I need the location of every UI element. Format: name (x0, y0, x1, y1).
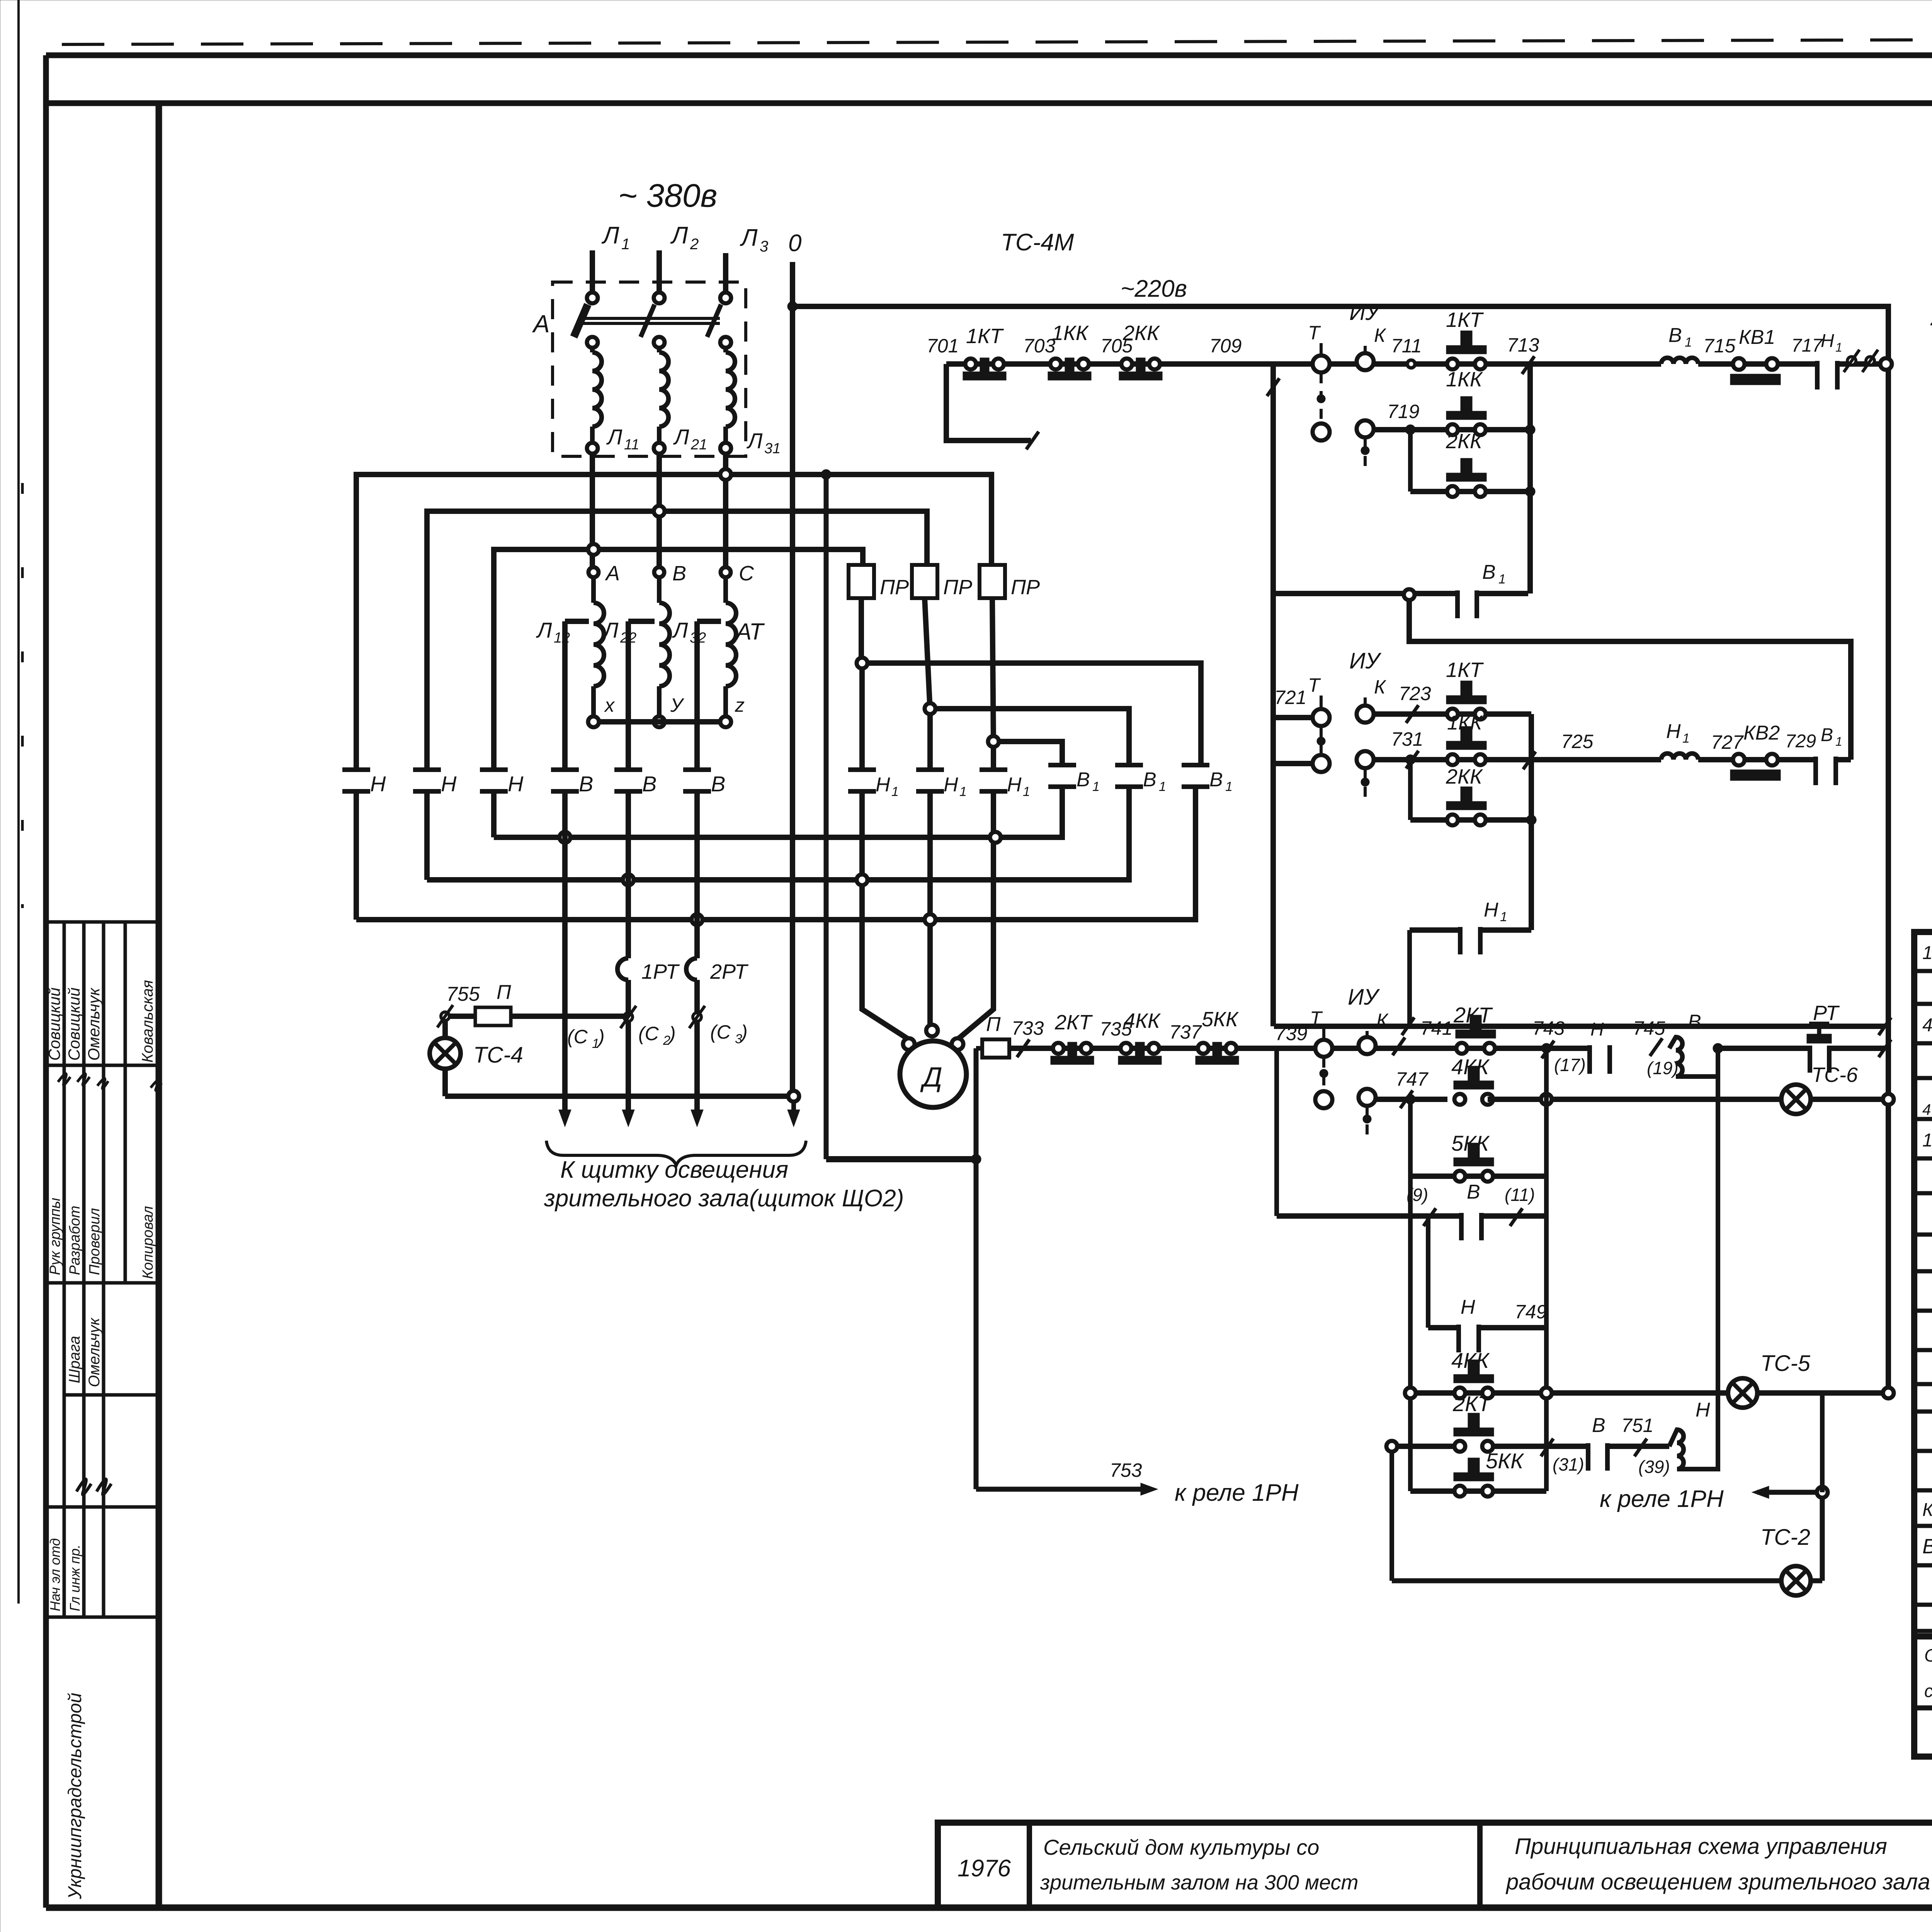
svg-text:ТС-2: ТС-2 (1760, 1525, 1810, 1550)
junction dot branch719 (1525, 425, 1535, 435)
automat pole 3 coil (726, 348, 735, 443)
pushbutton 1KK NO row1 (1446, 368, 1486, 435)
svg-text:(31): (31) (1553, 1454, 1584, 1475)
wire C2 column upper (626, 791, 631, 958)
text zritelnogo zala (544, 1185, 904, 1212)
automat pole 1 top terminal (587, 293, 598, 303)
svg-text:Ковальская: Ковальская (139, 980, 156, 1063)
junction circle H1 col1 y2277 (857, 874, 867, 885)
svg-text:1: 1 (959, 784, 967, 799)
pushbutton 1KT NO row1 (1446, 308, 1486, 369)
svg-text:(19): (19) (1647, 1058, 1679, 1078)
svg-text:1КТ: 1КТ (1446, 658, 1484, 682)
label C1 (567, 1026, 605, 1051)
table row 7 text (0, 0, 0, 0)
stamp signature squiggles 1 (58, 1074, 162, 1091)
winding L12 (594, 577, 604, 717)
label C3 (710, 1021, 748, 1046)
wire H1col3 mid (991, 747, 996, 770)
svg-text:А: А (532, 310, 550, 338)
sheet outer scan edge left (17, 0, 20, 1604)
label 719 (1387, 401, 1419, 422)
wire bottom collector (445, 1094, 789, 1099)
contact H1 feedback row2 (1460, 899, 1507, 954)
wire TC5 to bus (1757, 1390, 1883, 1396)
wire PR2 to H1col2 (925, 598, 930, 710)
svg-text:Принципиальная схема управл: Принципиальная схема управления (1515, 1834, 1887, 1859)
wire H col1 lower (354, 791, 359, 920)
junction circle row1 loop (1404, 589, 1415, 600)
svg-text:711: 711 (1391, 335, 1422, 357)
svg-text:1: 1 (1092, 779, 1100, 794)
table row 2 text (1922, 1012, 1932, 1036)
label 751 (1621, 1415, 1653, 1436)
title object line1 (1043, 1835, 1319, 1859)
stamp row line 3 (46, 1281, 159, 1285)
sheet top scan dashed edge (62, 38, 1932, 44)
wire TC2 line (1392, 1578, 1781, 1583)
svg-text:4КК-5КК: 4КК-5КК (1922, 1015, 1932, 1036)
limit switch KV1 (1730, 326, 1781, 385)
label automat A (532, 310, 550, 338)
contact B1 feedback row1 (1458, 561, 1506, 618)
wire 747 to lamp (1488, 1097, 1781, 1102)
junction circle TC6 bus (1883, 1094, 1894, 1105)
svg-text:1: 1 (1159, 779, 1166, 794)
svg-text:В: В (1143, 769, 1156, 791)
svg-text:2КТ: 2КТ (1453, 1003, 1493, 1027)
svg-text:749: 749 (1515, 1301, 1547, 1323)
table horizontal lines (1914, 971, 1932, 1631)
selector IU row1 (1308, 300, 1386, 372)
automat A dashed box (553, 282, 746, 456)
lamp TC-2 (1760, 1525, 1811, 1595)
contact H feedback 749 (1459, 1296, 1479, 1352)
svg-text:Обозн: Обозн (1924, 1645, 1932, 1665)
title block verticals (1029, 1823, 1932, 1908)
fuse PR2 body (912, 565, 972, 599)
svg-text:747: 747 (1396, 1068, 1429, 1090)
wire row3 main (1009, 1039, 1590, 1057)
winding L22 (659, 577, 670, 717)
label 717 (1791, 335, 1823, 356)
table row 15 text (1922, 1496, 1932, 1520)
svg-text:1: 1 (1835, 340, 1842, 354)
svg-text:(39): (39) (1638, 1457, 1670, 1477)
wire branch 5KK-2 (1410, 1488, 1546, 1494)
wire vertical 3602 (1389, 1452, 1394, 1581)
automat pole 1 coil (592, 348, 602, 443)
svg-text:701: 701 (927, 335, 959, 357)
wire wrap row y2277 (427, 787, 1129, 880)
junction circle O col bottom (788, 1091, 799, 1102)
title object line2 (1040, 1871, 1358, 1894)
pushbutton 2KT NO second (1452, 1391, 1494, 1452)
relay coil H lower (1669, 1399, 1718, 1469)
svg-text:2КТ: 2КТ (1054, 1011, 1093, 1034)
text k rele 1RN left (1175, 1480, 1299, 1506)
svg-text:1КТ: 1КТ (1446, 308, 1484, 332)
svg-text:4КК: 4КК (1124, 1009, 1161, 1032)
label L32 (672, 618, 706, 646)
wire H1col2 mid (927, 714, 933, 770)
svg-text:Л: Л (536, 618, 552, 642)
svg-text:В: В (711, 772, 725, 796)
svg-text:Л: Л (601, 222, 619, 249)
svg-text:2: 2 (690, 236, 699, 253)
wire row1 end (1839, 350, 1881, 372)
label 741 (1420, 1017, 1452, 1039)
label L12 (536, 618, 570, 646)
stamp text Kopiroval (140, 1206, 156, 1279)
title sheet name line2 (1505, 1869, 1930, 1895)
contact B feedback 31 (1588, 1414, 1607, 1471)
svg-text:Н: Н (1821, 331, 1834, 351)
wire TC2 right (1811, 1492, 1822, 1581)
arrow C2 down (622, 1096, 634, 1127)
wire row1 loop right vertical (1527, 364, 1533, 594)
svg-text:(С: (С (567, 1026, 588, 1048)
wire row1 branch 2KK (1405, 425, 1530, 492)
wire H1col3 to motor (957, 843, 993, 1039)
label L3 (740, 224, 768, 255)
wire row2 branch 723 (1374, 705, 1531, 723)
junction circle TC5 bus (1883, 1388, 1894, 1398)
label 743 with mark (1532, 1017, 1565, 1058)
svg-text:~ 380в: ~ 380в (618, 177, 717, 214)
contact H col2 (413, 770, 457, 796)
pushbutton 4KK row3 (1118, 1009, 1162, 1065)
fuse P row3 (976, 1013, 1009, 1058)
svg-text:зрительным залом на 300 мест: зрительным залом на 300 мест (1040, 1871, 1358, 1894)
svg-text:В: В (642, 772, 656, 796)
svg-text:Л: Л (670, 222, 688, 249)
svg-text:1: 1 (621, 236, 630, 253)
table line above perechen (1914, 1706, 1932, 1711)
junction circle B col2 y2277 (623, 874, 634, 885)
terminal circle 2KT2 left (1386, 1441, 1397, 1452)
label ~380V (618, 177, 717, 214)
wire B1col1 lower (1060, 787, 1065, 832)
table row 5 text (1922, 1128, 1932, 1151)
label 747 (1396, 1068, 1429, 1090)
wire branch H 749 (1428, 1325, 1546, 1330)
svg-text:к реле 1РН: к реле 1РН (1600, 1486, 1724, 1512)
svg-text:1КК-2КК: 1КК-2КК (1922, 943, 1932, 963)
svg-text:ИУ: ИУ (1348, 985, 1380, 1010)
label 713 with mark (1507, 334, 1539, 374)
bus 2 node circle at L21 (654, 506, 665, 517)
wire row2 right vertical (1529, 714, 1534, 930)
wire B1col3 lower (1193, 787, 1198, 914)
svg-text:1КК: 1КК (1052, 321, 1089, 345)
automat pole 3 blade (707, 304, 721, 337)
label 723 (1399, 683, 1431, 704)
contact B1 col3 (1182, 765, 1233, 794)
svg-text:741: 741 (1420, 1017, 1452, 1039)
stamp text Kovalskaya (139, 980, 156, 1063)
contact H1 row1 (1817, 331, 1842, 389)
pushbutton 2KK NO row2 (1446, 765, 1486, 825)
pushbutton 2KK row1 (1119, 321, 1162, 380)
stamp signature squiggles 2 (77, 1479, 111, 1495)
svg-text:2РТ: 2РТ (710, 960, 749, 983)
svg-text:В,Н1: В,Н1 (1922, 1535, 1932, 1558)
wire branch 9-B-11 (1277, 1048, 1546, 1226)
note line 4 (1930, 308, 1932, 330)
wire row2 bottom rail (1274, 1017, 1891, 1035)
svg-text:Нач эл отд: Нач эл отд (47, 1538, 63, 1611)
svg-text:719: 719 (1387, 401, 1419, 422)
svg-text:П: П (986, 1013, 1001, 1036)
svg-text:КВ2: КВ2 (1743, 722, 1780, 744)
contact B col1 (551, 770, 593, 796)
wire H1col1 mid (859, 668, 865, 770)
stamp text Sovitsky 1 (45, 987, 63, 1061)
contact PT (1807, 1002, 1840, 1073)
label 745 with mark (1633, 1017, 1665, 1056)
wire row2 H1 loop (1410, 930, 1531, 1026)
svg-text:(17): (17) (1554, 1055, 1586, 1075)
arrow C1 down (559, 1096, 571, 1127)
svg-text:755: 755 (446, 983, 480, 1005)
table row 0 text (1922, 939, 1932, 964)
contact B1 row2 (1816, 725, 1842, 785)
svg-text:737: 737 (1169, 1021, 1202, 1043)
svg-text:2КТ: 2КТ (1452, 1391, 1492, 1416)
stamp column verticals (64, 922, 125, 1617)
svg-text:РТ: РТ (1813, 1002, 1840, 1025)
svg-text:Н: Н (441, 772, 457, 796)
selector IU row2 link (1317, 727, 1325, 754)
svg-text:Н: Н (370, 772, 386, 796)
label C2 (638, 1023, 676, 1048)
drawing frame left line (43, 55, 49, 1908)
svg-text:ПР: ПР (1011, 576, 1040, 599)
brace to lighting panel (546, 1141, 806, 1165)
text K shchitku (560, 1156, 788, 1183)
contact B1 col2 (1115, 765, 1166, 794)
svg-text:зрительного зала(щиток ЩО2): зрительного зала(щиток ЩО2) (544, 1185, 904, 1212)
automat pole 1 blade (574, 304, 588, 337)
slash 2KT2 (1541, 1439, 1553, 1456)
stamp text Omelchuk 2 (86, 1317, 103, 1387)
table header Obozn (1924, 1645, 1932, 1701)
svg-text:Омельчук: Омельчук (85, 987, 103, 1061)
wire H1col2 to B1c2 (935, 709, 1129, 765)
svg-text:1: 1 (1225, 779, 1233, 794)
svg-text:В: В (1077, 769, 1090, 791)
wire branch 5KK row3 (1410, 1173, 1546, 1179)
svg-text:В: В (1467, 1181, 1480, 1203)
fuse P 755 terminal (437, 1005, 453, 1027)
svg-text:Рук группы: Рук группы (47, 1198, 63, 1275)
svg-text:Шрага: Шрага (66, 1336, 83, 1383)
label 739 (1275, 1023, 1307, 1044)
svg-text:1: 1 (1682, 731, 1690, 746)
contact B col3 (683, 770, 725, 796)
svg-text:5КК: 5КК (1486, 1449, 1524, 1473)
terminal circle row1 bus (1880, 358, 1892, 370)
fuse PR3 body (980, 565, 1040, 599)
label TC-4M (1001, 229, 1074, 256)
wire XYZ star (599, 719, 720, 724)
svg-text:1: 1 (1023, 784, 1030, 799)
svg-text:ТС-4: ТС-4 (473, 1043, 523, 1068)
phase mark C3 (689, 1006, 705, 1028)
svg-text:У: У (670, 694, 685, 716)
wire wrap row y2167 (494, 787, 1062, 837)
wire row3 briefcase corner (1274, 1048, 1279, 1051)
bus 1 node circle at L31 (720, 469, 731, 480)
svg-text:5КК: 5КК (1451, 1131, 1490, 1155)
label L31 (747, 429, 781, 457)
wire vertical 9 down (1426, 1216, 1430, 1328)
svg-text:(С: (С (638, 1023, 659, 1044)
selector IU row3 link (1320, 1058, 1328, 1090)
svg-text:схеме: схеме (1924, 1681, 1932, 1701)
motor D (900, 1041, 966, 1107)
wire row2 branch 2KK (1405, 755, 1531, 820)
svg-text:725: 725 (1561, 731, 1594, 752)
svg-text:С: С (739, 562, 754, 585)
label (31) (1553, 1454, 1584, 1475)
arrow C3 down (691, 1096, 703, 1127)
svg-text:ТС-4М: ТС-4М (1001, 229, 1074, 256)
svg-text:2КК: 2КК (1122, 321, 1160, 345)
automat pole 1 bottom terminal (587, 443, 598, 454)
stamp text institute name (65, 1693, 85, 1900)
svg-text:1: 1 (1498, 572, 1506, 587)
label 755 (446, 983, 480, 1005)
wire L31 down to C (723, 454, 728, 567)
stamp row line 6 (46, 1616, 159, 1619)
svg-text:z: z (735, 694, 745, 716)
wire PR1 to H1col1 (859, 598, 864, 665)
terminal C (721, 562, 754, 585)
svg-text:ИУ: ИУ (1349, 300, 1381, 325)
wire row2 after coil (1698, 757, 1815, 762)
svg-text:К: К (1374, 676, 1386, 698)
svg-text:Л: Л (672, 618, 688, 642)
svg-text:ИУ: ИУ (1349, 648, 1381, 673)
svg-text:743: 743 (1532, 1017, 1565, 1039)
svg-text:к реле 1РН: к реле 1РН (1175, 1480, 1299, 1506)
bus 3 wire (494, 549, 863, 768)
label 733 (1012, 1017, 1044, 1039)
label L22 (602, 618, 636, 646)
wire B1col2 lower (1126, 787, 1132, 874)
label AT (735, 619, 765, 645)
stamp text Shraga (66, 1336, 83, 1383)
relay coil H1 row2 (1661, 720, 1698, 760)
contact B1 col1 (1048, 765, 1100, 794)
svg-text:В: В (1592, 1414, 1605, 1437)
svg-text:Н: Н (1461, 1296, 1475, 1318)
svg-text:В: В (1688, 1011, 1701, 1033)
svg-text:х: х (604, 694, 615, 716)
svg-text:В: В (579, 772, 593, 796)
svg-text:1КК: 1КК (1447, 712, 1483, 734)
label 735 (1100, 1018, 1132, 1040)
wire 753 line (976, 1159, 1158, 1495)
selector IU row3 (1310, 985, 1389, 1057)
pushbutton 2KT row3 (1051, 1011, 1094, 1065)
drawing frame top line (46, 53, 1932, 58)
svg-text:ПР: ПР (943, 576, 972, 599)
automat pole 3 top terminal (720, 293, 731, 303)
stamp text Sovitsky 2 (65, 987, 83, 1061)
wire row3 feed from bus1 (824, 474, 829, 1159)
svg-text:(С: (С (710, 1021, 731, 1043)
wire H col1 upper (354, 474, 359, 770)
wire row1 feed stub (946, 364, 1039, 449)
wire 31-39 (1607, 1439, 1669, 1456)
automat pole 2 top terminal (654, 293, 665, 303)
svg-text:723: 723 (1399, 683, 1431, 704)
pushbutton 4KK NO second (1451, 1348, 1494, 1398)
stamp row line 4 (64, 1393, 159, 1397)
svg-text:2КК: 2КК (1446, 765, 1483, 788)
svg-text:4КК: 4КК (1451, 1054, 1490, 1079)
label 737 (1169, 1021, 1202, 1043)
junction dot 743 (1541, 1043, 1551, 1053)
label 721 (1274, 687, 1306, 708)
tap jog B1col (565, 619, 589, 624)
label (9) (1406, 1185, 1428, 1205)
svg-text:В: В (672, 562, 686, 585)
wire TC4 top (442, 1021, 448, 1038)
stamp text Proveril (87, 1208, 103, 1275)
svg-text:Укрниипградсельстрой: Укрниипградсельстрой (65, 1693, 85, 1900)
svg-text:(9): (9) (1406, 1185, 1428, 1205)
wire B col1 upper (562, 621, 568, 770)
svg-text:739: 739 (1275, 1023, 1307, 1044)
wire H1col1 lower (859, 791, 865, 874)
label L1 (601, 222, 630, 253)
svg-text:753: 753 (1110, 1459, 1142, 1481)
wire row1 loop left vertical (1267, 364, 1279, 1026)
wire C1 column (562, 791, 568, 1110)
svg-text:1: 1 (1500, 910, 1507, 924)
svg-text:П: П (497, 981, 511, 1003)
pushbutton 1KT NO row2 (1446, 658, 1486, 719)
svg-text:Совицкий: Совицкий (45, 987, 63, 1061)
pushbutton 1KK NO row2 (1446, 712, 1486, 765)
wire H1col2 to motor (927, 925, 933, 1024)
svg-text:4ТТ-6ТТ: 4ТТ-6ТТ (1922, 1101, 1932, 1118)
svg-text:Т: Т (1310, 1007, 1323, 1029)
wire row2 main chain (1374, 751, 1661, 769)
wire neutral O (790, 262, 795, 1092)
svg-text:КВ1: КВ1 (1739, 326, 1775, 349)
svg-text:1КТ;2КТ: 1КТ;2КТ (1922, 1130, 1932, 1151)
pushbutton 2KT NO row3 (1453, 1003, 1496, 1054)
label 711 with node (1391, 335, 1422, 368)
table row 16 text (1922, 1534, 1932, 1558)
svg-text:703: 703 (1023, 335, 1056, 357)
terminal Y (654, 694, 685, 727)
fuse P 755 body (475, 1007, 511, 1026)
contact H row3 (1590, 1019, 1610, 1074)
svg-text:Сельский дом культуры со: Сельский дом культуры со (1043, 1835, 1319, 1859)
wire 1RN up to TC5 line (1820, 1393, 1825, 1492)
terminal Z (720, 694, 745, 727)
svg-text:717: 717 (1791, 335, 1823, 356)
junction circle B col3 y2380 (692, 914, 702, 925)
pushbutton 5KK NO second (1454, 1449, 1524, 1497)
fuse PR1 body (849, 565, 909, 599)
